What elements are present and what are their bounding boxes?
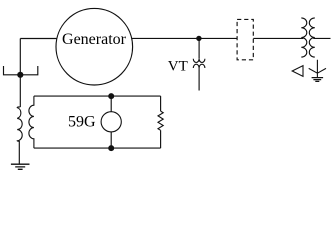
wire: generator left lead to neutral corner [20, 38, 57, 40]
node: VT tap junction dot [196, 36, 201, 41]
node: relay bottom junction dot [108, 145, 114, 151]
VT transformer secondary winding [193, 64, 205, 68]
wire: secondary loop top [34, 95, 161, 97]
resistor R top lead [160, 96, 162, 111]
grounding transformer secondary winding [29, 96, 34, 148]
wire: relay bottom lead [110, 132, 112, 148]
ground at grounding transformer [11, 164, 30, 169]
step-up transformer primary winding [301, 18, 307, 57]
step-up transformer secondary winding [309, 18, 315, 57]
wire: generator right lead to transformer [132, 37, 304, 39]
VT transformer primary winding [193, 59, 205, 63]
svg-text:Generator: Generator [62, 31, 127, 48]
wire: VT secondary lead down [198, 68, 200, 91]
generator G circle [56, 8, 133, 85]
wire: neutral vertical drop [19, 39, 21, 108]
circuit breaker (dashed box) [237, 19, 253, 59]
resistor R zigzag [158, 111, 163, 130]
wire: VT drop [198, 38, 200, 58]
node: neutral junction dot [17, 72, 23, 78]
wye winding symbol [309, 60, 326, 78]
delta winding symbol [292, 66, 303, 77]
wire: transformer secondary lead right [313, 37, 330, 39]
relay 59G circle [101, 112, 121, 132]
wire: relay top lead [110, 96, 112, 112]
surge bracket symbol at neutral [4, 66, 38, 75]
wire: grounding transformer primary to ground [18, 141, 20, 164]
label: Generator [62, 31, 127, 48]
node: relay top junction dot [108, 93, 114, 99]
label: 59G [68, 113, 96, 130]
grounding transformer primary winding [17, 107, 22, 142]
wire: secondary loop bottom [34, 147, 161, 149]
svg-text:VT: VT [168, 58, 188, 74]
svg-text:59G: 59G [68, 113, 96, 130]
label: VT [168, 58, 188, 74]
resistor R bottom lead [160, 130, 162, 148]
ground at wye [312, 78, 324, 82]
